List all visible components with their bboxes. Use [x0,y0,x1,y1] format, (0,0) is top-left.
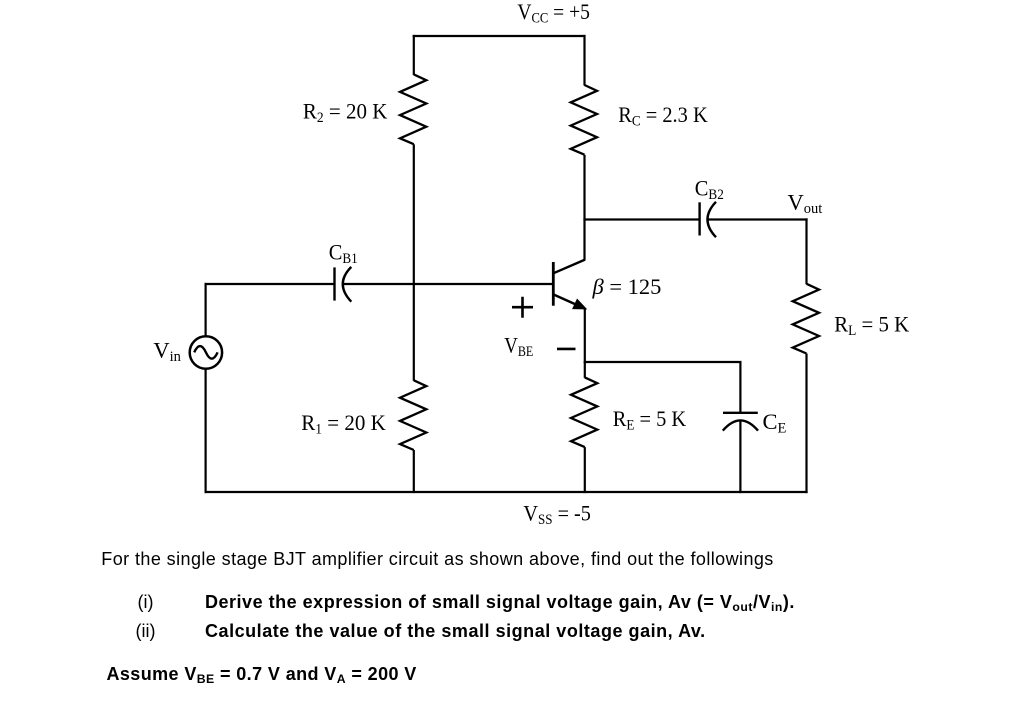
transistor Q1 emitter arrowhead [573,300,585,309]
wire: collector branch vertical top segment [583,35,585,86]
svg-text:VSS = -5: VSS = -5 [523,500,591,528]
wire: left divider vertical top segment [413,35,415,75]
wire: bottom VSS rail [205,491,808,493]
text: assumption line [107,664,417,685]
capacitor CB2 curved plate [708,202,717,237]
label + (VBE plus sign) [512,297,533,318]
wire: divider vertical middle segment [413,144,415,381]
svg-text:R1 = 20 K: R1 = 20 K [301,410,386,438]
wire: right vertical from RL to bottom rail [805,354,807,494]
resistor R1 (zigzag) [400,380,426,450]
wire: top VCC rail [413,35,586,37]
capacitor CB1 flat plate [333,267,335,300]
capacitor CE flat plate [723,412,758,414]
svg-text:VBE: VBE [504,333,533,361]
source Vin sine symbol [194,346,217,359]
capacitor CB1 curved plate [343,267,352,302]
svg-text:Vin: Vin [153,337,181,365]
wire: CB2 to Vout corner [708,218,808,220]
label - (VBE minus sign) [557,348,576,351]
wire: base horizontal from Vin to CB1 [205,283,335,285]
svg-text:VCC = +5: VCC = +5 [517,0,590,27]
capacitor CE curved plate [723,420,758,430]
wire: divider vertical bottom segment [413,450,415,493]
wire: input vertical from base wire to Vin source [205,283,207,336]
capacitor CB2 flat plate [698,202,700,235]
text: item (ii) [136,621,156,642]
transistor Q1 emitter diagonal [553,294,584,308]
svg-text:CB1: CB1 [329,240,358,268]
resistor RL (zigzag) [793,284,819,354]
svg-text:CE: CE [763,409,787,437]
wire: base horizontal from CB1 to transistor base [343,283,553,285]
svg-text:CB2: CB2 [695,175,724,203]
svg-text:Vout: Vout [788,189,823,217]
source Vin (AC source circle) [190,336,222,368]
wire: input vertical from Vin source to bottom rail [205,369,207,493]
transistor Q1 collector diagonal [553,260,585,274]
resistor RC (zigzag) [571,85,597,155]
svg-text:RC = 2.3 K: RC = 2.3 K [618,102,708,129]
wire: collector horizontal to CB2 [583,218,699,220]
wire: emitter node down to RE [584,362,586,378]
wire: CE branch vertical bottom [739,420,741,493]
wire: collector vertical (RC bottom to transistor collector) [583,155,585,261]
wire: CE branch vertical top [739,362,741,413]
svg-text:β = 125: β = 125 [592,274,662,299]
wire: RE bottom to bottom rail [584,447,586,493]
text: problem statement line [101,549,773,570]
resistor RE (zigzag) [571,377,597,447]
wire: emitter vertical (arrow to emitter node) [584,308,586,363]
svg-text:R2 = 20 K: R2 = 20 K [303,98,388,126]
wire: emitter node horizontal to CE branch [584,361,742,363]
text: item (i) [138,592,154,613]
svg-text:RE = 5 K: RE = 5 K [613,406,687,434]
wire: right vertical from Vout corner to RL [805,218,807,284]
transistor Q1 base bar [552,262,555,306]
resistor R2 (zigzag) [400,74,426,144]
svg-text:RL = 5 K: RL = 5 K [834,311,910,339]
